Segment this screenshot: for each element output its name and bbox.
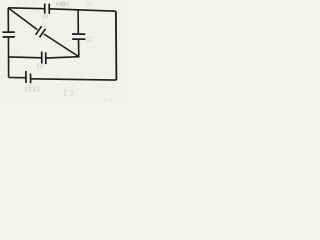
capacitor C5 right plate xyxy=(45,52,47,64)
faint squiggle right of diagonal cap xyxy=(44,14,48,19)
capacitor C5 left plate xyxy=(41,52,43,64)
wire middle horizontal right segment xyxy=(46,57,79,58)
capacitor C3 plate 1 xyxy=(36,26,42,35)
faint equals mark mid right xyxy=(86,38,91,41)
capacitor C4 top plate xyxy=(72,33,85,35)
capacitor C4 bottom plate xyxy=(72,38,85,40)
capacitor C3 plate 2 xyxy=(40,29,46,38)
wire left edge upper xyxy=(7,8,9,32)
capacitor C6 left plate xyxy=(25,71,27,83)
wire top right segment xyxy=(49,9,115,11)
wire diagonal lower segment xyxy=(44,34,79,57)
wire bottom left segment xyxy=(9,77,26,79)
wire vertical branch lower segment xyxy=(78,40,80,58)
faint bleed-through mark top right xyxy=(86,2,92,5)
capacitor C6 right plate xyxy=(30,74,32,84)
wire left edge lower xyxy=(7,38,9,78)
wire top left segment xyxy=(8,7,44,10)
faint dots bottom right xyxy=(103,99,113,100)
faint squiggle left middle xyxy=(15,51,18,53)
wire diagonal upper segment xyxy=(8,8,37,30)
capacitor C2 top plate xyxy=(2,31,14,33)
wire bottom right segment xyxy=(31,79,117,80)
wire middle horizontal left segment xyxy=(9,56,42,59)
wire vertical branch upper segment xyxy=(77,10,79,33)
wire right edge xyxy=(115,11,118,80)
faint ticks above bottom capacitor xyxy=(38,64,42,69)
faint parentheses marks bottom middle xyxy=(65,90,73,96)
capacitor C2 bottom plate xyxy=(3,36,15,38)
faint bleed-through text bottom left xyxy=(26,86,39,92)
capacitor C1 right plate xyxy=(48,4,50,14)
paper grain xyxy=(0,0,126,103)
faint bleed-through text top middle xyxy=(57,2,68,6)
capacitor C1 left plate xyxy=(44,4,46,14)
paper background xyxy=(0,0,126,103)
